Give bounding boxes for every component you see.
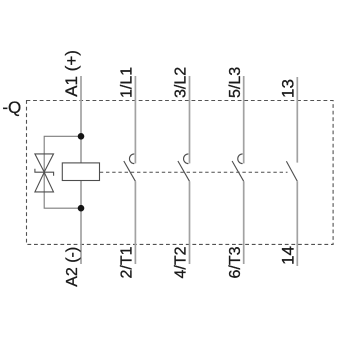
wire: main pole line 4/T2 (bottom)	[189, 181, 191, 264]
svg-text:1/L1: 1/L1	[119, 67, 136, 98]
svg-text:5/L3: 5/L3	[227, 67, 244, 98]
wire: main pole line 1/L1 (top)	[134, 76, 136, 163]
wire: main pole line 3/L2 (top)	[189, 76, 191, 163]
svg-text:A1 (+): A1 (+)	[62, 50, 81, 97]
auxiliary NO contact 13-14: moving blade	[286, 161, 297, 181]
surge suppressor (bidirectional TVS diode) triangles	[35, 154, 54, 192]
main contact pole 2: moving blade	[178, 161, 190, 181]
svg-text:3/L2: 3/L2	[173, 67, 190, 98]
wire: suppressor branch (top connector, vertical, bottom connector)	[44, 136, 81, 208]
coil U1 (operating coil rectangle)	[62, 163, 99, 181]
svg-text:6/T3: 6/T3	[227, 246, 244, 278]
wire: auxiliary contact line 13 (top)	[296, 77, 298, 163]
wire: main pole line 5/L3 (top)	[243, 76, 245, 163]
junction node dot (A1 line / suppressor top)	[78, 133, 85, 140]
wire: auxiliary contact line 14 (bottom)	[296, 181, 298, 266]
svg-text:4/T2: 4/T2	[173, 246, 190, 278]
svg-text:13: 13	[279, 79, 298, 98]
svg-text:A2 (-): A2 (-)	[64, 247, 81, 287]
wire: main pole line 2/T1 (bottom)	[134, 181, 136, 264]
main contact pole 3: moving blade	[232, 161, 244, 181]
junction node dot (A2 line / suppressor bottom)	[78, 205, 85, 212]
wire: main pole line 6/T3 (bottom)	[243, 181, 245, 264]
main contact pole 1: moving blade	[124, 161, 136, 181]
mechanical actuator dashed link from coil to contacts	[100, 171, 288, 173]
surge suppressor zener bar with bent ends	[35, 169, 54, 176]
svg-text:-Q: -Q	[2, 98, 21, 117]
main contact pole 3: fixed contact arc	[238, 154, 243, 164]
svg-text:14: 14	[279, 246, 298, 265]
dashed enclosure border of contactor -Q	[27, 101, 334, 245]
wire: coil terminal line A1 (top)	[80, 76, 82, 163]
wire: coil terminal line A2 (bottom)	[80, 181, 82, 265]
main contact pole 1: fixed contact arc	[129, 154, 134, 164]
main contact pole 2: fixed contact arc	[184, 154, 189, 164]
svg-text:2/T1: 2/T1	[119, 246, 136, 278]
